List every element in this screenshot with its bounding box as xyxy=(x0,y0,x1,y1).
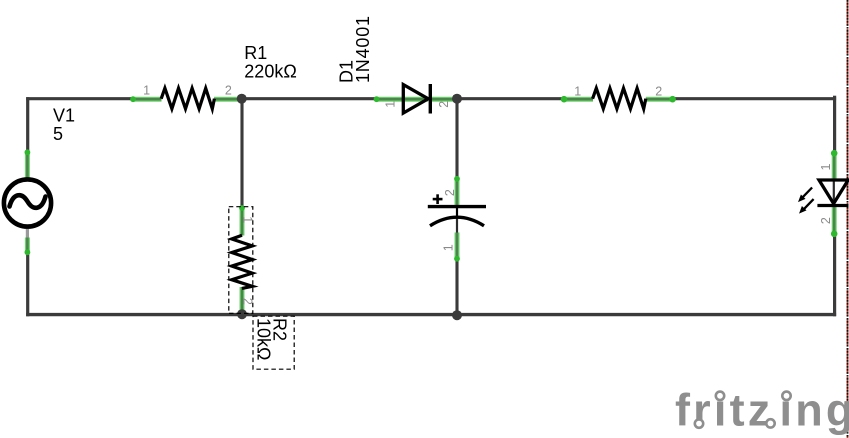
lead R3 pin 1 xyxy=(564,97,593,102)
lead R1 pin 2 xyxy=(214,97,242,102)
lead R3 pin 2 xyxy=(646,97,673,102)
wire top-right (R3 to corner) xyxy=(671,97,836,100)
junction node R1/R2 top xyxy=(237,94,247,104)
endpoint dot V1 bottom xyxy=(25,249,31,255)
svg-text:1: 1 xyxy=(574,84,581,98)
lead R1 pin 1 xyxy=(133,97,162,102)
wire top (R1 to D1) xyxy=(240,97,378,100)
svg-text:1: 1 xyxy=(819,163,833,170)
wire right vertical upper xyxy=(833,96,836,154)
label V1 xyxy=(53,106,75,144)
wire left vertical lower xyxy=(26,229,29,241)
lead LED pin 1 xyxy=(832,153,837,181)
wire right vertical lower xyxy=(833,233,836,316)
wire top (D1 to R3) xyxy=(455,97,566,100)
svg-text:2: 2 xyxy=(443,189,457,196)
wire left vertical upper xyxy=(26,97,29,153)
capacitor C1 (polarized) xyxy=(428,194,486,226)
svg-text:1: 1 xyxy=(240,216,254,223)
AC source V1 xyxy=(4,179,51,226)
endpoint dot C1 pin2 xyxy=(454,176,460,182)
svg-text:R1: R1 xyxy=(244,43,267,63)
lead R2 pin 2 xyxy=(240,287,245,314)
junction node D1/C1 top xyxy=(452,94,462,104)
svg-text:2: 2 xyxy=(655,84,662,98)
junction node R2 bottom xyxy=(237,309,247,319)
junction node C1 bottom xyxy=(452,310,462,320)
svg-text:1: 1 xyxy=(442,244,456,251)
endpoint dot R2 pin1 xyxy=(239,205,245,211)
lead C1 pin 1 xyxy=(455,233,460,260)
resistor R1 xyxy=(161,88,214,109)
selection box R2 label xyxy=(253,316,294,369)
LED D2 xyxy=(798,180,848,214)
lead V1 pin bottom xyxy=(25,238,30,254)
selection box R2 xyxy=(229,207,253,314)
endpoint dot R3 pin2 xyxy=(669,96,676,103)
diode D1 xyxy=(403,84,430,114)
svg-text:V1: V1 xyxy=(53,106,75,126)
lead V1 pin top xyxy=(25,152,30,179)
svg-text:1: 1 xyxy=(384,101,398,108)
lead C1 pin 2 xyxy=(455,179,460,206)
endpoint dot LED pin1 xyxy=(831,150,838,157)
page boundary xyxy=(847,0,849,438)
svg-text:1N4001: 1N4001 xyxy=(353,15,373,83)
wire LED inner lead xyxy=(833,180,835,204)
lead LED pin 2 xyxy=(832,206,837,235)
wire capacitor branch lower xyxy=(456,216,458,234)
endpoint dot LED pin2 xyxy=(831,231,838,238)
wire R2 branch (junction down to R2) xyxy=(240,99,243,209)
svg-text:2: 2 xyxy=(225,84,232,98)
svg-text:10kΩ: 10kΩ xyxy=(253,318,273,360)
wire top-left (V1 to R1) xyxy=(26,97,136,100)
label R2 xyxy=(253,318,289,360)
svg-text:220kΩ: 220kΩ xyxy=(244,62,296,82)
svg-text:5: 5 xyxy=(53,124,63,144)
lead R2 pin 1 xyxy=(240,208,245,236)
endpoint dot R3 pin1 xyxy=(561,96,568,103)
endpoint dot V1 top xyxy=(25,149,31,155)
lead D1 pin 1 xyxy=(376,97,428,102)
svg-text:2: 2 xyxy=(240,298,254,305)
svg-text:2: 2 xyxy=(819,217,833,224)
svg-text:2: 2 xyxy=(437,101,451,108)
label R1 xyxy=(244,43,296,81)
endpoint dot C1 pin1 xyxy=(454,256,460,262)
resistor R2 (selected) xyxy=(232,235,253,288)
wire bottom xyxy=(26,313,836,316)
lead D1 pin 2 xyxy=(431,97,457,102)
fritzing logo xyxy=(675,385,849,436)
endpoint dot D1 pin1 xyxy=(374,96,380,102)
endpoint dot R1 pin1 xyxy=(130,96,136,102)
resistor R3 xyxy=(593,88,646,109)
label D1 xyxy=(337,15,373,83)
svg-text:1: 1 xyxy=(143,84,150,98)
wire capacitor branch upper xyxy=(455,99,458,181)
